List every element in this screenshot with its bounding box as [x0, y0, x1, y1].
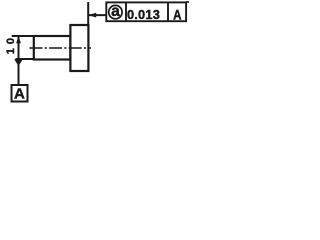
FCF divider 1 — [125, 2, 127, 21]
arrowhead of FCF leader (pointing left) — [88, 13, 96, 18]
leader from datum triangle to datum box — [18, 64, 20, 85]
flange (large diameter section) — [70, 25, 88, 71]
up arrowhead of dimension line — [16, 36, 21, 43]
dimension line (10) — [18, 37, 20, 60]
concentricity-style circled symbol circle — [109, 5, 122, 18]
frame top edge overshoot (scan artifact) — [186, 1, 189, 3]
datum triangle (filled, pointing down) — [14, 59, 23, 66]
svg-text:0: 0 — [5, 38, 17, 44]
bottom extension line of 10 dimension — [16, 58, 35, 60]
svg-text:a: a — [111, 3, 120, 20]
centerline (axis, dash-dot) — [30, 47, 92, 49]
svg-text:0.013: 0.013 — [127, 7, 160, 22]
svg-text:A: A — [14, 86, 25, 103]
feature control frame outer box — [106, 2, 186, 21]
FCF divider 2 — [167, 2, 169, 21]
extension line above flange right edge — [87, 2, 89, 25]
svg-text:A: A — [173, 6, 181, 22]
small cylinder (part outline, dia 10 section) — [34, 36, 71, 60]
top extension line of 10 dimension — [12, 35, 34, 37]
svg-text:1: 1 — [5, 48, 17, 54]
datum feature box frame — [12, 85, 28, 102]
leader line to feature control frame — [89, 14, 107, 16]
